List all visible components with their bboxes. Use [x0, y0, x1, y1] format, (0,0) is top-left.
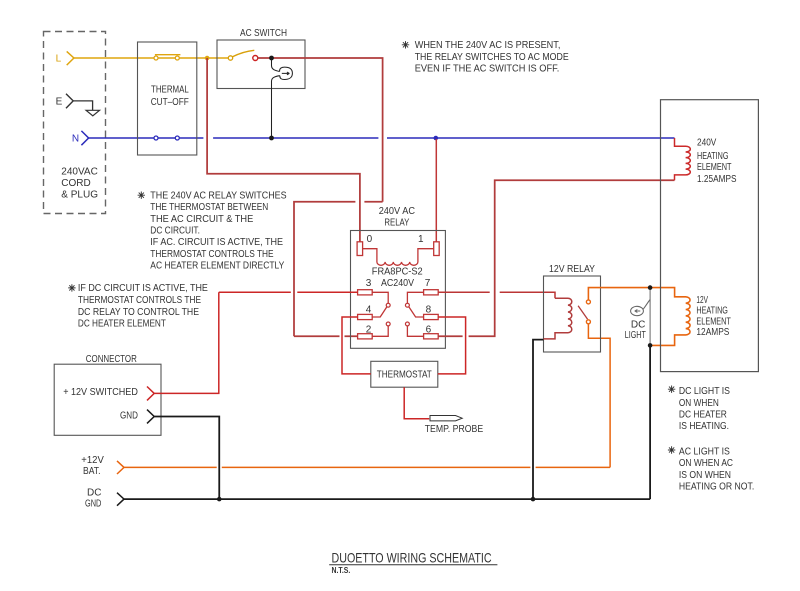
- wire +12V switched to relay pin 3: [154, 292, 358, 393]
- svg-text:CORD: CORD: [61, 178, 90, 189]
- left contact circle lower: [386, 322, 390, 326]
- node junction dot DC light bottom: [648, 343, 653, 348]
- relay coil between pin 0 and pin 1: [363, 249, 434, 266]
- svg-text:ELEMENT: ELEMENT: [696, 316, 731, 327]
- svg-text:THE 240V AC RELAY SWITCHES: THE 240V AC RELAY SWITCHES: [150, 190, 287, 201]
- svg-text:BAT.: BAT.: [83, 466, 101, 477]
- svg-text:4: 4: [366, 304, 372, 315]
- wire 12V relay coil return (black) to DC GND: [533, 340, 544, 498]
- wire +12V BAT to 12V relay contact: [124, 323, 610, 468]
- svg-text:HEATING OR NOT.: HEATING OR NOT.: [679, 481, 754, 492]
- wire N (blue) plug to 240V heating element, gaps at crossings: [89, 137, 675, 139]
- svg-text:THERMOSTAT CONTROLS THE: THERMOSTAT CONTROLS THE: [150, 249, 274, 260]
- svg-text:AC HEATER ELEMENT DIRECTLY: AC HEATER ELEMENT DIRECTLY: [150, 261, 284, 272]
- svg-text:WHEN THE 240V AC IS PRESENT,: WHEN THE 240V AC IS PRESENT,: [415, 40, 561, 51]
- temp probe: [430, 416, 462, 421]
- svg-text:0: 0: [367, 234, 373, 245]
- thermal cut-off contact L line: [154, 56, 158, 60]
- svg-text:ON WHEN AC: ON WHEN AC: [679, 458, 733, 469]
- svg-text:AC240V: AC240V: [381, 278, 414, 289]
- pin 4: [358, 314, 373, 319]
- ground symbol: [86, 110, 99, 116]
- node N junction dot at relay pin 1 feed: [434, 136, 439, 141]
- svg-text:THERMOSTAT CONTROLS THE: THERMOSTAT CONTROLS THE: [78, 295, 201, 306]
- svg-text:CUT–OFF: CUT–OFF: [151, 97, 189, 108]
- svg-text:12V: 12V: [696, 295, 708, 306]
- node L plug pin: [67, 51, 74, 65]
- connector box J1: [54, 364, 161, 435]
- svg-text:HEATING: HEATING: [696, 306, 728, 317]
- thermostat box: [371, 361, 438, 387]
- right contact circle lower: [405, 322, 409, 326]
- wire thermostat to temp probe: [404, 387, 429, 419]
- thermal cut-off contact N line: [154, 136, 158, 140]
- wire relay pin 8 to thermostat: [438, 317, 466, 374]
- wire AC switch output (L switched) to 240V relay pin 2: [258, 58, 383, 336]
- note if DC circuit is active: [68, 284, 75, 291]
- svg-text:7: 7: [425, 278, 431, 289]
- wire relay pin 7 to 12V relay coil: [438, 292, 555, 298]
- svg-text:8: 8: [426, 304, 432, 315]
- wire N to relay coil pin 1: [435, 139, 437, 242]
- AC switch blade: [233, 50, 255, 57]
- svg-text:240V: 240V: [697, 138, 717, 149]
- pin 1: [434, 242, 440, 256]
- svg-text:THERMAL: THERMAL: [151, 85, 189, 96]
- node DC GND junction with 12V relay coil return: [531, 497, 536, 502]
- svg-text:CONNECTOR: CONNECTOR: [86, 354, 137, 365]
- svg-text:DC HEATER: DC HEATER: [679, 409, 727, 420]
- svg-text:240VAC: 240VAC: [61, 166, 98, 177]
- 240V AC relay box U1: [351, 231, 446, 349]
- right contact circle upper: [405, 303, 409, 307]
- svg-text:& PLUG: & PLUG: [61, 190, 98, 201]
- wire lower left contact to pin 2: [372, 326, 388, 336]
- svg-text:FRA8PC-S2: FRA8PC-S2: [372, 267, 423, 278]
- svg-text:12AMPS: 12AMPS: [696, 327, 729, 338]
- node DC GND junction with connector GND: [217, 497, 222, 502]
- svg-text:RELAY: RELAY: [384, 218, 409, 229]
- svg-text:1.25AMPS: 1.25AMPS: [697, 174, 737, 185]
- wire E to ground: [73, 101, 92, 110]
- svg-text:DUOETTO WIRING SCHEMATIC: DUOETTO WIRING SCHEMATIC: [332, 549, 492, 565]
- node AC switch lamp tap junction dot: [269, 56, 274, 61]
- svg-text:EVEN IF THE AC SWITCH IS OFF.: EVEN IF THE AC SWITCH IS OFF.: [415, 63, 560, 74]
- note AC light is on: [668, 446, 675, 453]
- svg-text:DC LIGHT IS: DC LIGHT IS: [679, 386, 730, 397]
- wire pin 3 to left contact: [372, 292, 388, 303]
- svg-text:IF AC. CIRCUIT IS ACTIVE, THE: IF AC. CIRCUIT IS ACTIVE, THE: [150, 237, 283, 248]
- 12V relay coil: [544, 298, 572, 339]
- svg-text:THE RELAY SWITCHES TO AC MODE: THE RELAY SWITCHES TO AC MODE: [415, 52, 569, 63]
- 12V relay contact circle lower: [586, 320, 590, 324]
- wire connector GND down to DC GND: [154, 417, 219, 499]
- wire DC GND bus: [124, 345, 650, 499]
- pin 2: [358, 334, 373, 339]
- wire lower right contact to pin 6: [407, 326, 423, 336]
- svg-text:ELEMENT: ELEMENT: [697, 162, 732, 173]
- 12V relay box K1: [544, 276, 601, 352]
- connector GND pin arrow: [147, 410, 154, 424]
- wire pin 7 to right contact: [407, 292, 423, 303]
- heater enclosure box: [661, 100, 759, 372]
- AC switch neon lamp: [272, 60, 280, 72]
- AC switch box: [217, 40, 305, 89]
- DC light bulb: [631, 306, 644, 315]
- 12V relay contact circle upper: [586, 300, 590, 304]
- svg-text:E: E: [56, 97, 63, 108]
- wire 12V relay contact to 12V heating element (orange top): [588, 288, 690, 346]
- DC light vertical branch: [649, 288, 651, 346]
- note the 240V AC relay switches: [138, 192, 145, 199]
- svg-text:IS HEATING.: IS HEATING.: [679, 421, 729, 432]
- connector +12V switched pin arrow: [147, 387, 154, 401]
- node junction dot DC light top: [648, 285, 653, 290]
- left blade pin 4: [372, 307, 387, 317]
- svg-text:THERMOSTAT: THERMOSTAT: [377, 369, 432, 380]
- left contact circle upper: [386, 303, 390, 307]
- svg-text:IF DC CIRCUIT IS ACTIVE, THE: IF DC CIRCUIT IS ACTIVE, THE: [78, 283, 208, 294]
- AC switch pole circle: [228, 56, 232, 60]
- svg-text:TEMP. PROBE: TEMP. PROBE: [425, 424, 484, 435]
- wire relay pin 4 to thermostat: [342, 317, 371, 374]
- svg-text:DC HEATER ELEMENT: DC HEATER ELEMENT: [78, 319, 166, 330]
- svg-text:GND: GND: [85, 498, 101, 509]
- svg-text:N: N: [72, 133, 79, 144]
- svg-text:HEATING: HEATING: [697, 151, 729, 162]
- wire relay pin 6 to 240V heating element return: [438, 180, 674, 336]
- wire L feed to relay coil pin 0: [207, 58, 360, 242]
- svg-text:L: L: [56, 53, 62, 64]
- pin 8: [424, 314, 439, 319]
- svg-text:DC RELAY TO CONTROL THE: DC RELAY TO CONTROL THE: [78, 307, 199, 318]
- svg-text:+ 12V SWITCHED: + 12V SWITCHED: [63, 387, 138, 398]
- node L junction dot after cut-off: [205, 56, 210, 61]
- pin 6: [424, 334, 439, 339]
- 12V relay blade: [578, 306, 588, 319]
- note when 240V AC present: [402, 41, 409, 48]
- 240V heating element: [675, 138, 691, 180]
- svg-text:ON WHEN: ON WHEN: [679, 398, 719, 409]
- wire L (yellow) plug to AC switch: [74, 57, 228, 59]
- node N plug pin: [81, 131, 88, 145]
- thermal cut-off box: [138, 42, 197, 155]
- node +12V BAT terminal: [117, 461, 124, 474]
- svg-text:N.T.S.: N.T.S.: [332, 566, 351, 575]
- svg-text:IS ON WHEN: IS ON WHEN: [679, 470, 731, 481]
- svg-text:+12V: +12V: [81, 455, 104, 466]
- svg-text:THE AC CIRCUIT & THE: THE AC CIRCUIT & THE: [150, 214, 253, 225]
- svg-text:2: 2: [366, 324, 372, 335]
- right blade pin 8: [409, 307, 424, 317]
- note DC light is on: [668, 386, 675, 393]
- node DC GND terminal: [117, 493, 124, 506]
- 240VAC cord and plug dashed enclosure: [44, 32, 106, 214]
- svg-text:6: 6: [426, 324, 432, 335]
- svg-text:LIGHT: LIGHT: [625, 330, 646, 341]
- svg-text:240V AC: 240V AC: [379, 206, 415, 217]
- svg-text:DC: DC: [631, 320, 645, 331]
- svg-text:DC: DC: [87, 488, 101, 499]
- svg-text:3: 3: [366, 278, 372, 289]
- node E plug pin: [66, 94, 73, 108]
- svg-text:THE THERMOSTAT BETWEEN: THE THERMOSTAT BETWEEN: [150, 202, 268, 213]
- pin 7: [424, 290, 439, 295]
- pin 3: [358, 290, 373, 295]
- svg-text:AC LIGHT IS: AC LIGHT IS: [679, 447, 730, 458]
- node N lamp junction dot: [269, 136, 274, 141]
- svg-text:DC CIRCUIT.: DC CIRCUIT.: [150, 226, 200, 237]
- pin 0: [357, 242, 363, 256]
- AC switch throw circle: [253, 56, 258, 61]
- svg-text:1: 1: [418, 234, 424, 245]
- svg-text:AC SWITCH: AC SWITCH: [240, 28, 287, 39]
- svg-text:GND: GND: [120, 411, 138, 422]
- svg-text:12V RELAY: 12V RELAY: [549, 264, 595, 275]
